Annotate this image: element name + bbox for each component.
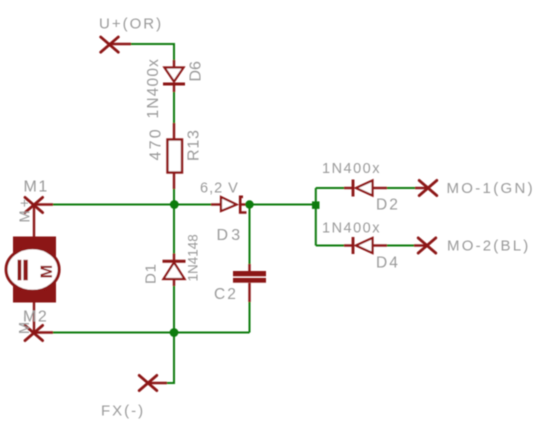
- svg-text:1N400x: 1N400x: [145, 58, 162, 119]
- svg-text:470: 470: [148, 127, 165, 160]
- svg-text:MO-2(BL): MO-2(BL): [447, 238, 530, 255]
- svg-text:D2: D2: [376, 197, 400, 214]
- svg-text:FX(-): FX(-): [101, 403, 145, 420]
- svg-text:1N400x: 1N400x: [322, 220, 381, 236]
- svg-text:C2: C2: [214, 286, 238, 303]
- svg-text:1N4148: 1N4148: [186, 234, 201, 281]
- svg-text:U+(OR): U+(OR): [99, 15, 163, 32]
- svg-text:D3: D3: [217, 227, 244, 244]
- svg-text:M1: M1: [24, 178, 49, 195]
- svg-text:R13: R13: [185, 129, 202, 161]
- svg-text:M: M: [38, 265, 56, 279]
- svg-text:MO-1(GN): MO-1(GN): [447, 180, 535, 197]
- svg-text:D1: D1: [143, 263, 160, 284]
- svg-text:D6: D6: [188, 61, 205, 82]
- svg-text:M+: M+: [18, 196, 34, 223]
- svg-text:6,2 V: 6,2 V: [200, 180, 239, 196]
- svg-text:M-: M-: [17, 315, 33, 334]
- svg-text:1N400x: 1N400x: [322, 161, 381, 177]
- svg-text:D4: D4: [376, 255, 400, 272]
